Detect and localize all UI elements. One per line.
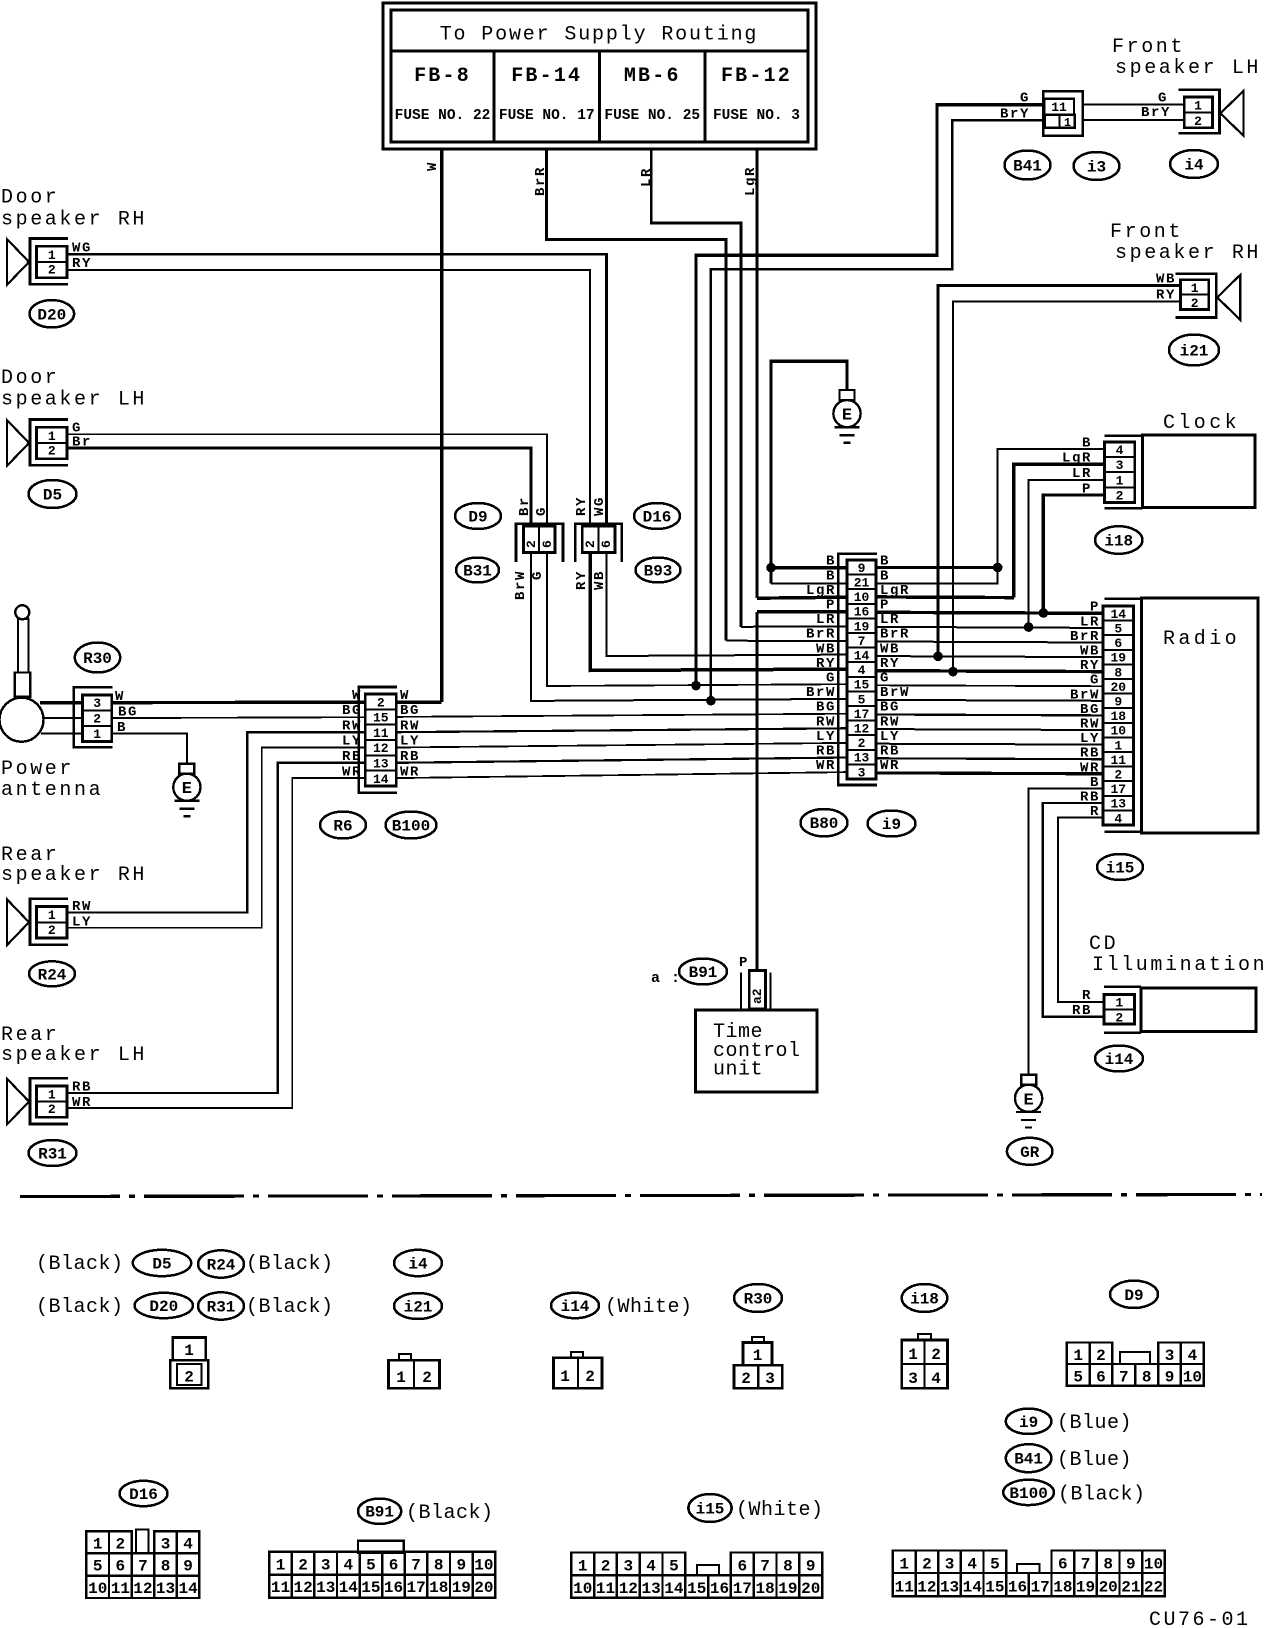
svg-text:LY: LY [1080, 731, 1100, 747]
svg-text:RW: RW [880, 714, 900, 730]
svg-text:Br: Br [72, 434, 92, 450]
svg-text:LY: LY [400, 734, 420, 750]
svg-text:14: 14 [373, 772, 389, 787]
svg-text:5: 5 [1073, 1369, 1083, 1387]
svg-text:WR: WR [400, 764, 420, 780]
svg-text:1: 1 [560, 1368, 570, 1386]
wire LgR from FB-12 [756, 149, 759, 598]
svg-text:RB: RB [880, 744, 900, 760]
connector R6/B100 bracket [359, 687, 397, 793]
Front speaker RH label [1110, 221, 1261, 265]
svg-text:i9: i9 [882, 816, 901, 834]
legend connector view D16 14pin [86, 1530, 199, 1599]
svg-text:1: 1 [93, 727, 101, 742]
svg-text:BrR: BrR [533, 166, 549, 196]
svg-text:3: 3 [945, 1556, 955, 1574]
svg-text:(Blue): (Blue) [1057, 1449, 1132, 1472]
svg-text:FB-8: FB-8 [414, 65, 471, 88]
legend D9 oval [1110, 1281, 1158, 1308]
svg-text:D16: D16 [129, 1486, 158, 1504]
svg-text:G: G [880, 671, 890, 687]
svg-text:R31: R31 [38, 1146, 67, 1164]
svg-text:(Black): (Black) [246, 1296, 334, 1319]
B80 left wire labels [806, 554, 836, 774]
svg-text:3: 3 [858, 765, 866, 780]
svg-text:R6: R6 [333, 818, 352, 836]
label BrY left of B41 [1000, 107, 1030, 123]
svg-text:i4: i4 [408, 1256, 428, 1274]
svg-text:RY: RY [816, 656, 836, 672]
svg-text:BrW: BrW [806, 685, 836, 701]
svg-text:4: 4 [1114, 811, 1122, 826]
svg-text:WR: WR [1080, 760, 1100, 776]
wire G front LH: B41 to speaker [1083, 104, 1185, 106]
svg-text:RB: RB [1080, 746, 1100, 762]
svg-text:R24: R24 [38, 966, 67, 984]
legend i15 oval + White [688, 1494, 823, 1522]
svg-text:B: B [1082, 435, 1092, 451]
label G bottom D9 [530, 570, 546, 580]
label LR [639, 167, 655, 187]
label Br top D9 [517, 496, 533, 516]
power antenna symbol [0, 605, 44, 741]
svg-text:i4: i4 [1184, 157, 1204, 175]
svg-text:WG: WG [592, 496, 608, 516]
svg-text:(Blue): (Blue) [1057, 1412, 1132, 1435]
label RY top D16 [574, 496, 590, 516]
legend B91 oval + Black [358, 1499, 494, 1526]
svg-text:3: 3 [93, 696, 101, 711]
svg-text:a :: a : [651, 970, 681, 987]
svg-text:E: E [1023, 1091, 1033, 1110]
connector D9/B31 [516, 524, 563, 562]
wire BrW from D9 to B80 [531, 553, 847, 701]
svg-text:i21: i21 [1180, 343, 1209, 361]
svg-text:18: 18 [429, 1579, 448, 1597]
label LY rear RH [72, 915, 92, 931]
svg-text:20: 20 [474, 1579, 493, 1597]
svg-text:B93: B93 [644, 563, 673, 581]
svg-text:G: G [530, 570, 546, 580]
wire G row right [876, 684, 1103, 687]
svg-text:WR: WR [72, 1095, 92, 1111]
svg-text:6: 6 [599, 540, 614, 548]
junction dot LR row clock [1024, 622, 1034, 632]
svg-text:(White): (White) [605, 1296, 693, 1319]
Clock box [1104, 412, 1255, 508]
svg-text:BG: BG [1080, 702, 1100, 718]
legend connector view B91 20pin [269, 1541, 495, 1598]
svg-text:RB: RB [400, 749, 420, 765]
label WB front RH [1156, 272, 1176, 288]
legend D16 oval [120, 1481, 168, 1506]
svg-text:3: 3 [321, 1556, 331, 1574]
svg-text:2: 2 [922, 1556, 932, 1574]
label WG top D16 [592, 496, 608, 516]
svg-text:i14: i14 [561, 1298, 590, 1316]
svg-text:13: 13 [373, 757, 389, 772]
svg-text:(Black): (Black) [1058, 1484, 1146, 1507]
Front speaker LH label [1112, 36, 1261, 80]
svg-text:2: 2 [741, 1370, 751, 1388]
svg-text:7: 7 [411, 1556, 421, 1574]
svg-text:LR: LR [639, 167, 655, 187]
svg-text:19: 19 [1076, 1579, 1095, 1597]
label W [425, 161, 441, 171]
svg-text:11: 11 [895, 1579, 914, 1597]
svg-text:B: B [826, 554, 836, 570]
legend connector view D9 10pin [1067, 1343, 1204, 1387]
svg-text:B91: B91 [689, 964, 718, 982]
wire B R30 to ground E [112, 734, 187, 764]
svg-text:BrR: BrR [1070, 629, 1100, 645]
svg-text:WG: WG [72, 241, 92, 257]
B80 oval [801, 809, 848, 836]
svg-text:6: 6 [1096, 1369, 1106, 1387]
svg-text:E: E [842, 407, 852, 426]
i21 oval [1169, 335, 1219, 366]
svg-text:2: 2 [115, 1535, 125, 1553]
R6 oval [320, 812, 366, 839]
svg-text:11: 11 [271, 1579, 290, 1597]
wire LR from MB-6 [651, 149, 741, 627]
svg-text:(Black): (Black) [406, 1502, 494, 1525]
svg-text:13: 13 [940, 1579, 959, 1597]
label BG R30 [118, 705, 138, 721]
svg-text:BrY: BrY [1141, 105, 1171, 121]
label BrR [533, 166, 549, 196]
label G left of B41 [1020, 91, 1030, 107]
svg-text:R31: R31 [207, 1299, 236, 1317]
svg-text:Radio: Radio [1163, 628, 1240, 651]
R6 left wire labels [342, 688, 362, 781]
rear speaker RH symbol [7, 899, 68, 945]
svg-text:i15: i15 [1106, 860, 1135, 878]
label BrW bottom D9 [513, 570, 529, 600]
wire RB row R6 to rear speaker LH [67, 763, 365, 1093]
svg-text:2: 2 [298, 1556, 308, 1574]
legend connector view D5/D20 type [170, 1337, 208, 1388]
radio left wire labels [1070, 600, 1100, 820]
svg-text:Front: Front [1112, 36, 1185, 59]
svg-text:20: 20 [801, 1580, 820, 1598]
svg-text:LY: LY [880, 729, 900, 745]
door speaker LH symbol [7, 420, 68, 466]
svg-text:LgR: LgR [743, 166, 759, 196]
i18 oval [1095, 526, 1143, 554]
svg-text:1: 1 [1116, 473, 1124, 488]
svg-text:2: 2 [1116, 488, 1124, 503]
B80 right wire labels [880, 554, 910, 774]
svg-text:LY: LY [72, 915, 92, 931]
legend R30 oval [734, 1284, 782, 1312]
wire RY door RH to D16 [67, 270, 590, 526]
svg-text:12: 12 [917, 1579, 936, 1597]
front speaker LH symbol + connector i4 [1179, 90, 1244, 136]
svg-text:BrW: BrW [880, 685, 910, 701]
svg-text:2: 2 [48, 263, 56, 278]
legend connector view i14 [554, 1352, 602, 1388]
svg-text:6: 6 [540, 540, 555, 548]
svg-text:12: 12 [133, 1580, 152, 1598]
GR oval [1007, 1138, 1053, 1165]
svg-text:2: 2 [184, 1369, 194, 1387]
wire WG door RH to D16 [67, 254, 607, 526]
Door speaker LH label [1, 367, 147, 412]
svg-text:Door: Door [1, 187, 59, 210]
wire RB row [396, 758, 1103, 763]
svg-text:9: 9 [1126, 1556, 1136, 1574]
wire BrR from FB-14 [547, 149, 726, 641]
wire WR row [396, 772, 1103, 778]
svg-text:RW: RW [400, 718, 420, 734]
svg-text:1: 1 [1191, 281, 1199, 296]
svg-text:BrR: BrR [880, 627, 910, 643]
svg-text:1: 1 [184, 1342, 194, 1360]
junction dot WB row [933, 652, 943, 662]
svg-text:D20: D20 [149, 1298, 178, 1316]
svg-text:5: 5 [990, 1556, 1000, 1574]
legend B100 Black [1003, 1480, 1145, 1507]
svg-text:FUSE NO. 17: FUSE NO. 17 [499, 108, 595, 124]
legend B41 Blue [1006, 1444, 1132, 1472]
legend row1 (Black) D5 R24 (Black) i4 [36, 1250, 442, 1278]
B31 oval [456, 558, 499, 583]
svg-text:RW: RW [1080, 717, 1100, 733]
svg-text:B100: B100 [1009, 1485, 1047, 1503]
Rear speaker RH label [1, 844, 147, 887]
wire BG row [396, 714, 1103, 717]
junction dot RY row [948, 667, 958, 677]
svg-text:11: 11 [373, 726, 389, 741]
wire WB row [876, 656, 1103, 657]
svg-text:4: 4 [646, 1558, 656, 1576]
svg-text:3: 3 [1165, 1347, 1175, 1365]
svg-text:21: 21 [1121, 1579, 1140, 1597]
svg-text:3: 3 [161, 1535, 171, 1553]
svg-text:16: 16 [710, 1580, 729, 1598]
svg-text:RY: RY [574, 496, 590, 516]
svg-text:WB: WB [880, 641, 900, 657]
svg-text:R30: R30 [744, 1291, 773, 1309]
D9 oval [455, 503, 501, 529]
wire Br door LH to D9 [67, 448, 531, 526]
svg-text:2: 2 [377, 695, 385, 710]
svg-text:9: 9 [456, 1556, 466, 1574]
svg-text:1: 1 [753, 1347, 763, 1365]
svg-text:1: 1 [48, 429, 56, 444]
CD Illumination box [1104, 987, 1256, 1033]
svg-text:11: 11 [111, 1580, 130, 1598]
Power antenna label [1, 758, 103, 802]
label Br [72, 434, 92, 450]
svg-text:3: 3 [765, 1370, 775, 1388]
R6/B100 pin column [365, 694, 396, 787]
wire BrW row right [876, 699, 1103, 702]
svg-text:2: 2 [583, 540, 598, 548]
svg-text:10: 10 [88, 1580, 107, 1598]
svg-text:RB: RB [1072, 1003, 1092, 1019]
svg-text:1: 1 [48, 1087, 56, 1102]
svg-text:4: 4 [183, 1535, 193, 1553]
wire WB from D16 to B80 WB row [607, 553, 847, 657]
svg-text:2: 2 [524, 540, 539, 548]
R30 oval [75, 643, 120, 673]
svg-text:antenna: antenna [1, 779, 103, 802]
svg-text:14: 14 [664, 1580, 684, 1598]
legend connector view i15 20pin [571, 1553, 822, 1599]
svg-text:CU76-01: CU76-01 [1149, 1609, 1251, 1628]
svg-text:1: 1 [396, 1369, 406, 1387]
svg-text:4: 4 [1188, 1347, 1198, 1365]
wire W row R30 to R6 [112, 701, 366, 705]
svg-text:R: R [1082, 988, 1092, 1004]
svg-text:G: G [1020, 91, 1030, 107]
junction dot P row clock [1039, 608, 1049, 618]
wire BG antenna stub [42, 717, 83, 719]
svg-text:(Black): (Black) [36, 1253, 124, 1276]
R31 oval [29, 1140, 77, 1166]
svg-text:15: 15 [373, 711, 389, 726]
wire RW row R6 to rear speaker RH [67, 732, 365, 912]
svg-text:i18: i18 [1104, 533, 1133, 551]
svg-text:2: 2 [1194, 114, 1202, 129]
B100 oval [386, 812, 437, 839]
svg-text:LR: LR [1080, 614, 1100, 630]
fuse box: To Power Supply Routing [383, 3, 816, 149]
svg-text:8: 8 [1142, 1369, 1152, 1387]
label RB rear LH [72, 1080, 92, 1096]
wire G door LH to D9 [67, 434, 547, 526]
svg-text:4: 4 [1116, 443, 1124, 458]
svg-text:2: 2 [1096, 1347, 1106, 1365]
svg-text:B100: B100 [392, 818, 430, 836]
label WG [72, 241, 92, 257]
svg-text:B41: B41 [1014, 1451, 1043, 1469]
label G top D9 [534, 506, 550, 516]
connector R30 bracket + pins [74, 687, 113, 747]
svg-text:B: B [826, 568, 836, 584]
wire RY row right [876, 669, 1103, 673]
door speaker RH symbol [7, 239, 68, 285]
ground E bottom right [1015, 1075, 1042, 1128]
svg-text:R30: R30 [83, 650, 112, 668]
svg-text:8: 8 [783, 1558, 793, 1576]
label W R30 [115, 689, 125, 705]
svg-text:RY: RY [1156, 288, 1176, 304]
svg-text:15: 15 [361, 1579, 380, 1597]
svg-text:7: 7 [138, 1558, 148, 1576]
wire RY from D16 to B80 RY row [590, 553, 847, 671]
clock connector i18 pin box [1104, 442, 1134, 504]
Door speaker RH label [1, 187, 147, 232]
svg-text:14: 14 [339, 1579, 359, 1597]
svg-text:RY: RY [1080, 658, 1100, 674]
label RY [72, 256, 92, 272]
svg-text:R24: R24 [207, 1257, 236, 1275]
connector D5 oval [29, 480, 77, 508]
wire B from B80 pin 9/21 to ground E [771, 361, 998, 583]
wire LY row R6 to rear speaker RH [67, 748, 365, 928]
wire P clock to P row [1043, 495, 1104, 613]
svg-text:unit: unit [713, 1059, 763, 1082]
legend i18 oval [902, 1284, 948, 1312]
svg-text:speaker RH: speaker RH [1, 864, 147, 887]
legend i9 Blue [1006, 1409, 1132, 1435]
CD connector i14 pin box [1104, 995, 1135, 1026]
junction dot G row [691, 681, 701, 691]
svg-text:LgR: LgR [1062, 451, 1092, 467]
svg-text:2: 2 [93, 712, 101, 727]
svg-text:1: 1 [578, 1558, 588, 1576]
svg-text:i15: i15 [696, 1501, 725, 1519]
svg-text:B31: B31 [463, 563, 492, 581]
wire G from D9 to B80 G row [547, 553, 847, 687]
svg-text:FUSE NO. 25: FUSE NO. 25 [604, 108, 700, 124]
svg-text:BrW: BrW [1070, 687, 1100, 703]
svg-text:2: 2 [585, 1368, 595, 1386]
svg-text:1: 1 [48, 908, 56, 923]
i3 oval [1074, 152, 1120, 180]
svg-text:WB: WB [592, 570, 608, 590]
wire LgR row B80 to clock riser [757, 597, 1014, 598]
legend connector view i4/i21 type [389, 1354, 440, 1388]
svg-text:(White): (White) [736, 1499, 824, 1522]
svg-text:1: 1 [1064, 116, 1071, 130]
label LgR [743, 166, 759, 196]
svg-text:i14: i14 [1105, 1051, 1134, 1069]
label RB cd [1072, 1003, 1092, 1019]
wire W antenna stubs [40, 701, 83, 704]
svg-text:4: 4 [931, 1370, 941, 1388]
wire B antenna stub [41, 733, 83, 735]
label P time control [739, 955, 749, 971]
svg-text:BG: BG [880, 700, 900, 716]
svg-text:G: G [826, 671, 836, 687]
svg-text:speaker LH: speaker LH [1, 389, 147, 412]
svg-text:i3: i3 [1087, 159, 1106, 177]
wire W from FB-8 [440, 149, 444, 702]
svg-text:(Black): (Black) [36, 1296, 124, 1319]
svg-text:17: 17 [406, 1579, 425, 1597]
svg-text:P: P [1082, 481, 1092, 497]
time control unit connector a2 [741, 971, 771, 1010]
svg-text:4: 4 [343, 1556, 353, 1574]
wire BrY front LH: B41 to speaker [1083, 119, 1185, 121]
svg-text:i21: i21 [404, 1299, 433, 1317]
svg-text:RY: RY [72, 256, 92, 272]
svg-text:i18: i18 [910, 1291, 939, 1309]
svg-text:G: G [1090, 673, 1100, 689]
svg-text:13: 13 [641, 1580, 660, 1598]
svg-text:1: 1 [276, 1556, 286, 1574]
svg-text:speaker LH: speaker LH [1115, 57, 1261, 80]
svg-text:RB: RB [72, 1080, 92, 1096]
svg-text:E: E [182, 780, 192, 799]
svg-text:2: 2 [48, 1102, 56, 1117]
svg-text:BG: BG [342, 703, 362, 719]
svg-text:10: 10 [474, 1556, 493, 1574]
svg-text:CD: CD [1089, 933, 1118, 956]
wire P row [757, 612, 1103, 614]
wire LY row [396, 743, 1103, 748]
svg-text:D20: D20 [37, 306, 66, 324]
svg-text:5: 5 [93, 1558, 103, 1576]
label G door LH [72, 421, 82, 437]
svg-text:LR: LR [880, 612, 900, 628]
svg-text:FB-12: FB-12 [721, 65, 792, 88]
svg-text:RY: RY [574, 570, 590, 590]
